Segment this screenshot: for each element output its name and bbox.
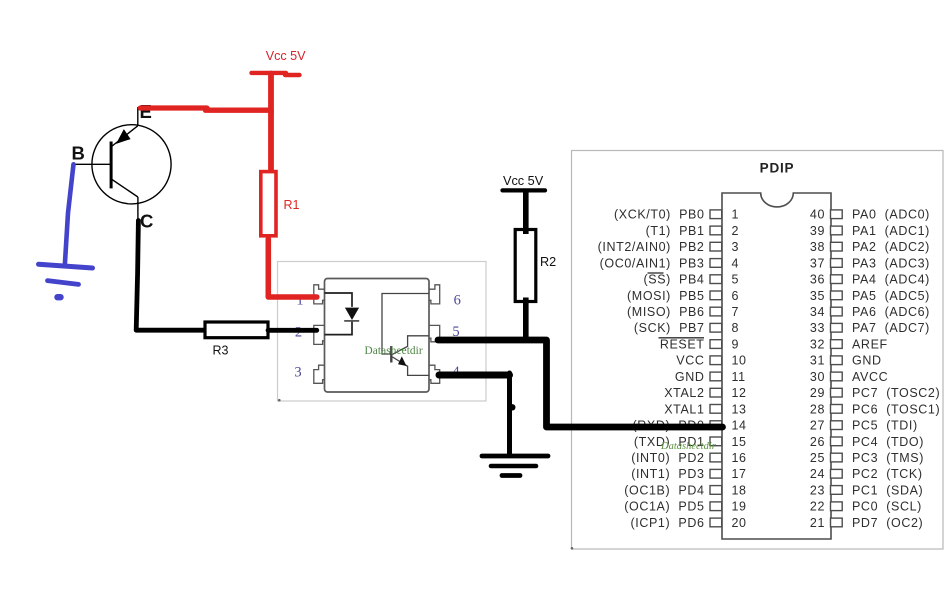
pin 32 AREF [810,338,888,352]
resistor R1 [261,172,276,236]
svg-text:35: 35 [810,289,825,303]
pin 15 (TXD) PD1 [634,435,747,449]
svg-text:32: 32 [810,338,825,352]
IC U2 body [722,193,831,539]
pin 4 (OC0/AIN1) PB3 [600,256,739,270]
svg-text:(SS) PB4: (SS) PB4 [644,273,705,287]
optocoupler U1 outer box [278,262,487,402]
svg-text:16: 16 [732,451,747,465]
opto pin 3 bracket [314,365,325,383]
svg-text:40: 40 [810,208,825,222]
opto pin 4 bracket [429,365,440,383]
svg-text:38: 38 [810,240,825,254]
svg-text:PC6 (TOSC1): PC6 (TOSC1) [852,402,940,416]
svg-text:36: 36 [810,273,825,287]
svg-text:VCC: VCC [676,354,704,368]
svg-text:PA0 (ADC0): PA0 (ADC0) [852,208,930,222]
svg-text:6: 6 [732,289,740,303]
svg-text:PA1 (ADC1): PA1 (ADC1) [852,224,930,238]
svg-text:11: 11 [732,370,746,384]
svg-text:B: B [72,143,85,164]
pin 14 (RXD) PD0 [633,419,747,433]
pin 36 PA4 (ADC4) [810,273,930,287]
svg-text:PC1 (SDA): PC1 (SDA) [852,483,923,497]
wire base to ground (blue) [65,164,74,265]
pin 28 PC6 (TOSC1) [810,402,940,416]
svg-text:25: 25 [810,451,825,465]
svg-text:GND: GND [852,354,882,368]
svg-text:(ICP1) PD6: (ICP1) PD6 [631,516,705,530]
optocoupler U1 body [325,279,430,393]
svg-text:3: 3 [294,364,301,380]
resistor R3 [205,322,268,338]
svg-text:7: 7 [732,305,740,319]
pin 38 PA2 (ADC2) [810,240,930,254]
svg-text:Datasheetdir: Datasheetdir [365,345,423,357]
svg-text:20: 20 [732,516,747,530]
svg-text:5: 5 [732,273,740,287]
svg-text:1: 1 [732,208,740,222]
pin 19 (OC1A) PD5 [624,500,746,514]
svg-text:19: 19 [732,500,747,514]
svg-text:AVCC: AVCC [852,370,888,384]
wire Vcc bar to R2 [523,190,529,230]
svg-text:2: 2 [732,224,740,238]
svg-text:PA3 (ADC3): PA3 (ADC3) [852,256,930,270]
svg-text:8: 8 [732,321,740,335]
svg-text:24: 24 [810,467,825,481]
wire R2 to pin5 node [523,302,529,342]
svg-text:GND: GND [675,370,705,384]
opto phototransistor base wire [382,294,429,355]
pin 25 PC3 (TMS) [810,451,924,465]
wire opto pin5 to PDIP pin14 [438,340,723,427]
svg-text:PC2 (TCK): PC2 (TCK) [852,467,923,481]
wire opto pin4 to ground [439,372,510,379]
svg-text:PC5 (TDI): PC5 (TDI) [852,419,918,433]
svg-text:PDIP: PDIP [760,161,795,176]
svg-text:6: 6 [454,292,461,308]
svg-text:(OC0/AIN1) PB3: (OC0/AIN1) PB3 [600,256,705,270]
svg-text:(XCK/T0) PB0: (XCK/T0) PB0 [614,208,704,222]
svg-text:Vcc 5V: Vcc 5V [503,174,544,188]
svg-text:PC7 (TOSC2): PC7 (TOSC2) [852,386,940,400]
pin 21 PD7 (OC2) [810,516,923,530]
svg-text:R2: R2 [540,255,556,269]
pin 29 PC7 (TOSC2) [810,386,940,400]
svg-text:(T1) PB1: (T1) PB1 [646,224,705,238]
opto phototransistor collector [393,336,430,355]
svg-text:18: 18 [732,483,747,497]
pin 13 XTAL1 [664,402,746,416]
power Vcc 5V rail bar (black) [503,188,546,192]
wire Vcc bar to R1 top (red) [268,110,274,173]
pin 30 AVCC [810,370,888,384]
svg-text:37: 37 [810,256,825,270]
pin 18 (OC1B) PD4 [624,483,746,497]
pin 37 PA3 (ADC3) [810,256,930,270]
svg-text:XTAL2: XTAL2 [664,386,704,400]
pin 2 (T1) PB1 [646,224,739,238]
svg-text:3: 3 [732,240,740,254]
svg-text:AREF: AREF [852,338,888,352]
pin 3 (INT2/AIN0) PB2 [598,240,739,254]
opto LED D1 cathode bar [344,320,359,322]
svg-text:23: 23 [810,483,825,497]
pin 16 (INT0) PD2 [631,451,746,465]
ground (black) [482,456,548,476]
svg-text:PC3 (TMS): PC3 (TMS) [852,451,924,465]
svg-text:Datasheetdir: Datasheetdir [660,441,717,452]
svg-text:22: 22 [810,500,825,514]
svg-text:PA6 (ADC6): PA6 (ADC6) [852,305,930,319]
svg-text:17: 17 [732,467,747,481]
pin 40 PA0 (ADC0) [810,208,930,222]
svg-text:13: 13 [732,402,747,416]
svg-text:E: E [140,101,152,122]
svg-text:(OC1B) PD4: (OC1B) PD4 [624,483,704,497]
pin 27 PC5 (TDI) [810,419,918,433]
svg-text:28: 28 [810,402,825,416]
svg-text:14: 14 [732,419,747,433]
opto pin 2 bracket [314,325,325,344]
svg-text:PA7 (ADC7): PA7 (ADC7) [852,321,930,335]
pin 9 RESET [660,338,739,352]
svg-text:(INT0) PD2: (INT0) PD2 [631,451,704,465]
pin 22 PC0 (SCL) [810,500,922,514]
svg-text:26: 26 [810,435,825,449]
pin 39 PA1 (ADC1) [810,224,930,238]
svg-text:R3: R3 [213,344,229,358]
overline SS (pin 5) [648,272,664,274]
IC U2 PDIP (ATmega) outer box [572,151,944,550]
svg-text:PA4 (ADC4): PA4 (ADC4) [852,273,930,287]
svg-text:(SCK) PB7: (SCK) PB7 [634,321,705,335]
pin 31 GND [810,354,882,368]
opto phototransistor emitter [393,357,430,375]
corner speck (PDIP box) [571,547,574,550]
opto pin 6 bracket [429,285,440,304]
pin 23 PC1 (SDA) [810,483,923,497]
pin 11 GND [675,370,746,384]
svg-text:39: 39 [810,224,825,238]
pin 12 XTAL2 [664,386,746,400]
overline RESET (pin 9) [659,337,705,339]
svg-text:PD7 (OC2): PD7 (OC2) [852,516,923,530]
ground (blue, hand drawn) [39,264,93,297]
corner speck (opto box) [278,399,281,402]
svg-text:Vcc 5V: Vcc 5V [266,49,306,63]
pin 20 (ICP1) PD6 [631,516,747,530]
svg-text:PC0 (SCL): PC0 (SCL) [852,500,922,514]
svg-text:PA5 (ADC5): PA5 (ADC5) [852,289,930,303]
pin 7 (MISO) PB6 [627,305,739,319]
pin 34 PA6 (ADC6) [810,305,930,319]
opto LED D1 triangle [345,308,359,320]
pin 17 (INT1) PD3 [631,467,746,481]
svg-text:XTAL1: XTAL1 [664,402,704,416]
svg-text:33: 33 [810,321,825,335]
R2 lead nubs [523,230,529,235]
wire collector to R3 (black) [136,221,205,331]
opto pin 5 bracket [429,325,440,341]
svg-text:34: 34 [810,305,825,319]
arrow of Q1 emitter (PNP, pointing to base bar) [117,130,130,143]
resistor R2 [515,230,536,302]
pin 6 (MOSI) PB5 [627,289,739,303]
svg-text:(MOSI) PB5: (MOSI) PB5 [627,289,704,303]
opto phototransistor base bar [390,346,392,363]
svg-text:29: 29 [810,386,825,400]
pin 10 VCC [676,354,746,368]
opto phototransistor emitter arrow [398,356,407,366]
svg-text:PC4 (TDO): PC4 (TDO) [852,435,924,449]
pin 8 (SCK) PB7 [634,321,739,335]
pin 26 PC4 (TDO) [810,435,924,449]
svg-text:9: 9 [732,338,740,352]
opto LED D1 wiring [325,293,353,335]
power Vcc 5V rail bar (red) [252,73,300,75]
svg-text:10: 10 [732,354,747,368]
svg-text:PA2 (ADC2): PA2 (ADC2) [852,240,930,254]
svg-text:RESET: RESET [660,338,705,352]
pin 5 (SS) PB4 [644,273,740,287]
wire Vcc to R1 and emitter (red) [268,74,274,113]
svg-text:(INT1) PD3: (INT1) PD3 [631,467,704,481]
pin 24 PC2 (TCK) [810,467,923,481]
svg-text:15: 15 [732,435,747,449]
junction dot [509,404,515,410]
svg-text:12: 12 [732,386,747,400]
svg-text:(MISO) PB6: (MISO) PB6 [627,305,704,319]
svg-text:27: 27 [810,419,825,433]
transistor Q1 (PNP) [74,107,171,219]
wire R3 to opto pin 2 (black) [268,328,317,333]
svg-text:R1: R1 [284,198,300,212]
svg-text:31: 31 [810,354,825,368]
svg-text:21: 21 [810,516,825,530]
wire R1 to opto pin 1 (red) [268,239,317,297]
svg-text:(INT2/AIN0) PB2: (INT2/AIN0) PB2 [598,240,705,254]
pin 33 PA7 (ADC7) [810,321,930,335]
svg-text:(OC1A) PD5: (OC1A) PD5 [624,500,704,514]
svg-text:30: 30 [810,370,825,384]
svg-text:C: C [140,211,153,232]
svg-text:4: 4 [732,256,740,270]
pin 1 (XCK/T0) PB0 [614,208,739,222]
pin 35 PA5 (ADC5) [810,289,930,303]
opto pin 1 bracket [314,285,325,304]
